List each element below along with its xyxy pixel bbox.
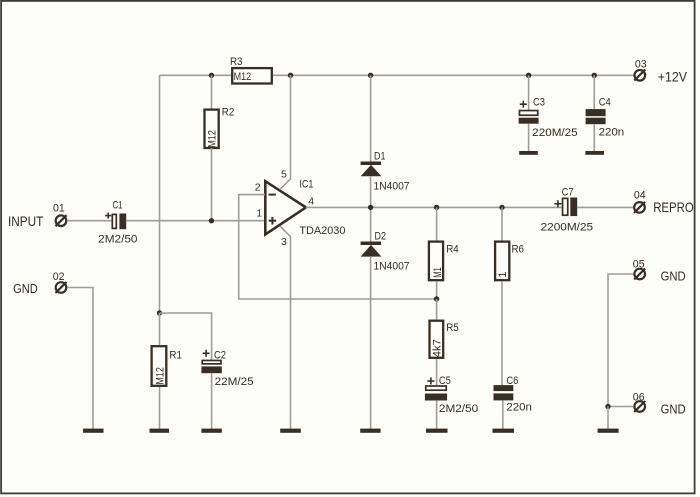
node junction O6 [605,404,610,409]
wire C3 to ground [528,124,530,151]
wire O5 to O6 junction [608,274,633,407]
capacitor C6 [494,375,532,414]
wire R4 top lead [436,207,438,240]
wire output line [306,206,562,208]
svg-text:GND: GND [661,268,686,283]
svg-text:C6: C6 [506,375,518,387]
svg-text:220n: 220n [599,127,625,139]
svg-text:3: 3 [281,236,287,248]
svg-text:05: 05 [633,258,645,270]
wire O1 to C1 [67,220,112,222]
wire down to ground [607,407,609,429]
ground below C4 [585,151,604,155]
wire C6 to ground [502,401,504,429]
wire C4 to ground [593,124,595,151]
ground below R1 [150,429,170,433]
svg-text:03: 03 [635,58,647,70]
svg-text:GND: GND [13,281,38,296]
wire pin2 feedback to R4/R5 node [239,195,437,299]
wire R1 top lead [159,313,161,345]
node junction rail/pin5 [288,73,293,78]
wire R2 top lead [211,75,213,109]
wire C1 to IC pin 1 [126,220,265,222]
wire R4 bottom lead [436,281,438,299]
svg-text:C1: C1 [113,199,123,211]
wire +12V rail left segment [160,74,233,76]
wire R6 top lead [501,207,503,240]
node junction bias/R1/C2 [157,310,162,315]
wire D1 to D2 through output node [370,176,372,241]
svg-text:2200M/25: 2200M/25 [541,221,594,233]
svg-text:22M/25: 22M/25 [215,376,254,388]
resistor R4 [429,242,459,281]
wire bias vertical from rail to R1/C2 node [159,75,161,313]
svg-text:C3: C3 [533,97,545,109]
resistor R3 [230,56,272,84]
svg-text:220M/25: 220M/25 [532,127,578,139]
svg-text:R4: R4 [446,244,459,256]
capacitor C5 [425,375,478,415]
svg-text:IC1: IC1 [299,178,313,190]
wire R1 bottom lead [159,387,161,429]
wire C3 top lead [528,75,530,110]
svg-text:INPUT: INPUT [8,213,44,229]
terminal O1 [53,203,67,227]
svg-text:M12: M12 [207,130,219,148]
svg-text:04: 04 [634,190,646,202]
wire C2 to ground [211,373,213,429]
ground below O5/O6 [598,429,619,433]
wire R5 to C5 [436,359,438,385]
capacitor C3 [519,97,578,140]
svg-text:2: 2 [255,181,261,193]
wire D column from rail to D1 [370,75,372,161]
node junction rail/D1 [368,73,373,78]
terminal O4 [634,190,646,213]
svg-text:C2: C2 [214,349,226,361]
ground below pin3 [280,429,301,433]
wire output to C7 / after C7 to O4 [577,206,634,208]
svg-text:5: 5 [281,168,287,180]
svg-text:4k7: 4k7 [432,339,444,357]
node junction rail/R2 [209,73,214,78]
resistor R2 [205,107,235,149]
wire D2 to ground [370,257,372,429]
wire C5 to ground [436,401,438,429]
ground below C2 [201,429,221,433]
wire R6 to C6 [501,281,503,385]
svg-text:R3: R3 [230,56,243,68]
capacitor C4 [586,97,625,139]
svg-text:+12V: +12V [658,68,688,84]
svg-text:C7: C7 [562,187,574,199]
node junction feedback/R4/R5 [434,296,439,301]
svg-text:4: 4 [308,195,314,207]
svg-text:R6: R6 [512,244,525,256]
svg-text:M12: M12 [234,71,252,83]
ground below D2 [360,429,380,433]
svg-text:06: 06 [633,391,645,403]
wire pin3 to ground [280,226,291,429]
terminal O5 [633,258,645,279]
svg-text:1N4007: 1N4007 [374,181,410,193]
capacitor C1 [98,199,137,245]
svg-text:D2: D2 [375,231,387,243]
svg-text:02: 02 [53,271,65,283]
svg-text:01: 01 [53,203,65,215]
terminal O3 [634,58,646,80]
resistor R5 [430,321,459,358]
wire O2 to ground [67,288,93,429]
ground below O2 [83,429,104,433]
svg-text:2M2/50: 2M2/50 [98,233,137,245]
svg-text:1: 1 [256,208,262,220]
wire R5 top lead [436,299,438,320]
node junction output/R4 [434,205,439,210]
svg-text:C5: C5 [439,375,451,387]
svg-text:R2: R2 [222,107,235,119]
wire pin5 to rail [280,75,291,190]
capacitor C2 [201,349,253,388]
terminal O6 [633,391,645,412]
ground below C3 [519,151,538,155]
capacitor C7 [541,187,594,234]
wire R2 bottom lead to input line [211,148,213,221]
node junction output/D [368,205,373,210]
wire O6 to vertical [608,406,633,408]
diode D2 1N4007 [361,231,410,273]
svg-text:TDA2030: TDA2030 [299,225,345,237]
svg-text:C4: C4 [599,97,611,109]
wire +12V rail right segment [272,74,634,76]
svg-text:GND: GND [661,402,686,417]
svg-text:D1: D1 [374,151,386,163]
svg-text:220n: 220n [506,402,532,414]
node junction rail/C3 [526,73,531,78]
svg-text:R1: R1 [169,349,182,361]
svg-text:R5: R5 [446,322,459,334]
diode D1 1N4007 [361,151,410,193]
resistor R1 [152,346,182,386]
node junction output/R6 [499,205,504,210]
wire bias node to C2 [160,313,212,360]
terminal O2 [53,271,67,293]
svg-text:1: 1 [497,271,509,277]
resistor R6 [495,242,524,281]
node junction rail/C4 [592,73,597,78]
svg-text:M1: M1 [432,267,444,278]
ground below C5 [426,429,448,433]
op-amp IC1 TDA2030 [255,168,346,248]
node junction input/R2 [209,218,214,223]
svg-text:2M2/50: 2M2/50 [439,403,478,415]
svg-text:1N4007: 1N4007 [374,260,410,272]
svg-text:REPRO: REPRO [653,199,694,215]
wire C4 top lead [593,75,595,109]
ground below C6 [493,429,515,433]
svg-text:M12: M12 [154,367,166,385]
